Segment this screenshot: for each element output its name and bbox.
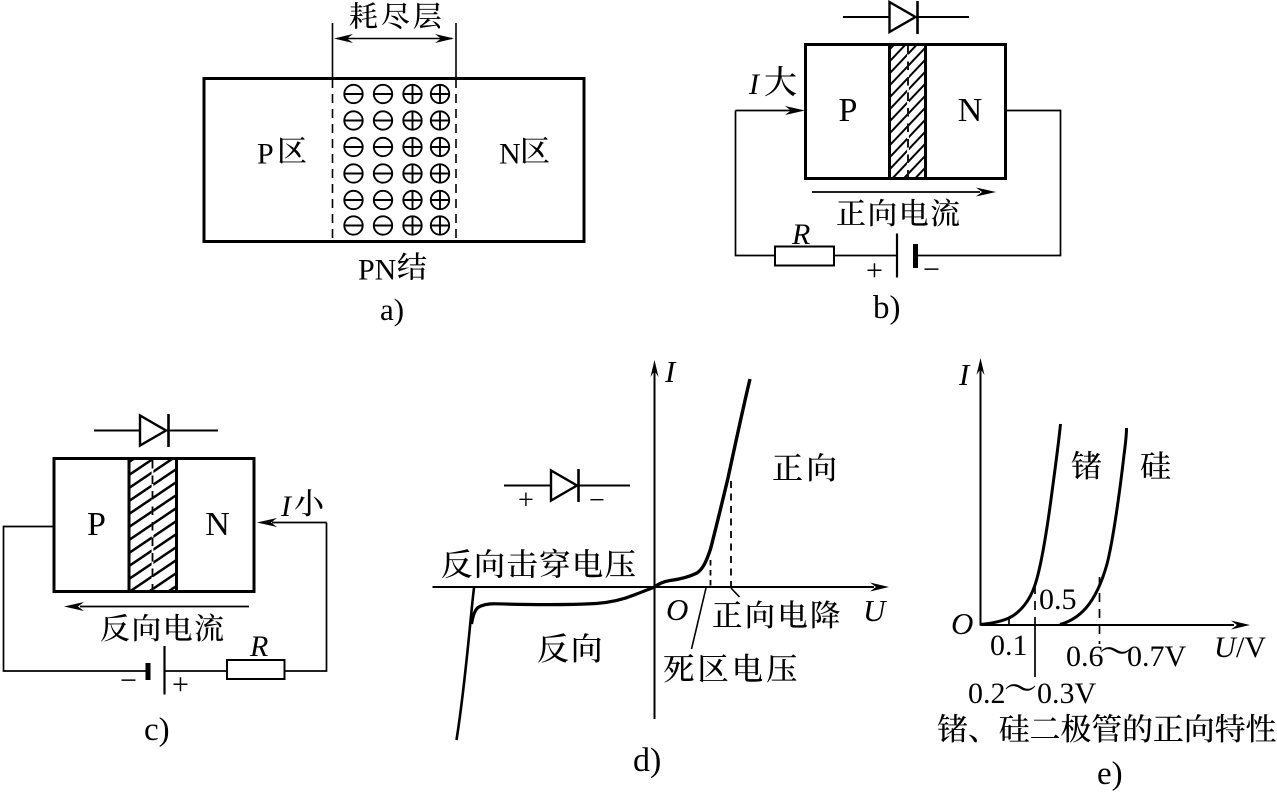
svg-text:/V: /V — [1236, 631, 1266, 664]
svg-text:U: U — [863, 593, 888, 628]
svg-text:+: + — [518, 485, 534, 516]
svg-text:R: R — [791, 218, 810, 251]
svg-text:P: P — [257, 138, 274, 171]
svg-text:I: I — [958, 357, 971, 392]
svg-text:O: O — [951, 606, 973, 641]
svg-text:+: + — [866, 254, 883, 287]
svg-text:b): b) — [873, 290, 901, 326]
svg-text:0.6: 0.6 — [1066, 640, 1104, 673]
svg-text:c): c) — [144, 712, 170, 748]
svg-text:0.7V: 0.7V — [1127, 640, 1187, 673]
svg-text:0.2: 0.2 — [968, 677, 1006, 710]
svg-text:e): e) — [1097, 756, 1123, 792]
svg-text:N: N — [958, 92, 983, 129]
svg-text:U: U — [1214, 631, 1238, 664]
svg-text:d): d) — [633, 742, 661, 779]
svg-text:P: P — [87, 506, 106, 543]
svg-text:N: N — [499, 138, 521, 171]
svg-text:0.1: 0.1 — [990, 629, 1028, 662]
svg-text:0.3V: 0.3V — [1037, 677, 1097, 710]
svg-text:−: − — [923, 253, 940, 286]
svg-text:−: − — [589, 485, 605, 516]
svg-text:N: N — [205, 506, 230, 543]
svg-text:a): a) — [380, 292, 404, 327]
svg-text:R: R — [249, 630, 268, 663]
svg-text:−: − — [120, 664, 137, 697]
svg-text:+: + — [172, 668, 189, 701]
svg-text:0.5: 0.5 — [1039, 583, 1077, 616]
svg-text:O: O — [666, 592, 688, 627]
svg-text:P: P — [839, 92, 858, 129]
svg-text:PN: PN — [358, 254, 396, 287]
svg-text:I: I — [664, 354, 677, 389]
